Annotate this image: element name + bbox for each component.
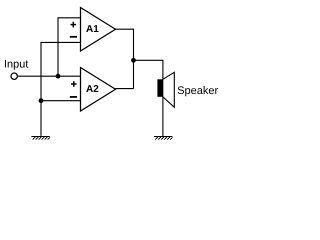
wire A1 inverting input to vertical ground line (41, 42, 81, 135)
op-amp A1 (81, 8, 116, 52)
op-amp A2 plus label (71, 81, 77, 87)
wire A2 inverting input (41, 100, 81, 102)
wire speaker to ground (162, 97, 164, 136)
wire input to A2 noninverting input (18, 75, 81, 77)
op-amp A1 minus label (70, 36, 77, 38)
wire bridge node to speaker (134, 60, 163, 79)
label Speaker (178, 86, 218, 96)
op-amp A1 plus label (71, 22, 77, 28)
speaker (157, 72, 174, 107)
label Input (5, 60, 28, 70)
wire A2 output to bridge node (116, 88, 134, 90)
ground right (154, 137, 173, 140)
wire A1 output down to bridge node (116, 29, 134, 88)
input terminal node Input (11, 73, 17, 79)
wire junction up to A1 noninverting branch (58, 18, 81, 76)
junction on input wire (56, 74, 61, 79)
op-amp A2 minus label (70, 96, 77, 98)
junction bridge node (131, 58, 136, 63)
op-amp A2 (81, 68, 116, 112)
ground left (31, 137, 50, 140)
junction on ground line at A2 inverting wire (39, 98, 44, 103)
